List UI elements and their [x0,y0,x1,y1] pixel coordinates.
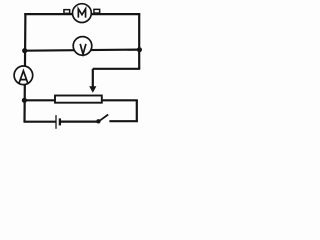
ammeter label A [19,71,28,84]
wire: rheostat right end to corner [102,99,138,101]
wiper arrowhead [89,86,96,93]
wire: top motor branch [24,13,140,15]
switch S lever [99,115,108,122]
wire: wiper vertical [92,69,94,87]
wire: battery to switch segment [61,120,97,122]
rheostat R body [55,96,102,103]
battery short thick plate [59,118,61,125]
node: rheostat left junction [22,98,27,103]
voltmeter V1 circle [73,37,92,56]
ammeter A1 circle [14,66,33,85]
wire: right vertical lower [136,100,138,122]
wire: bottom segment to battery [24,121,56,123]
node: V-branch right junction [137,47,142,52]
motor left brush box [64,10,70,14]
wire: right vertical upper [138,13,140,69]
switch S pivot dot [96,119,100,123]
motor M1 circle [73,4,92,23]
wire: wiper horizontal [93,68,140,70]
voltmeter label V [80,44,86,54]
node: V-branch left junction [22,48,27,53]
battery long plate [55,115,57,129]
wire: A-junction to rheostat left end [24,99,56,101]
motor label M [78,9,85,18]
wire: left vertical rail [23,13,26,123]
wire: switch to bottom-right corner [109,120,137,122]
wire: voltmeter branch [24,50,139,51]
motor right brush box [94,9,100,13]
